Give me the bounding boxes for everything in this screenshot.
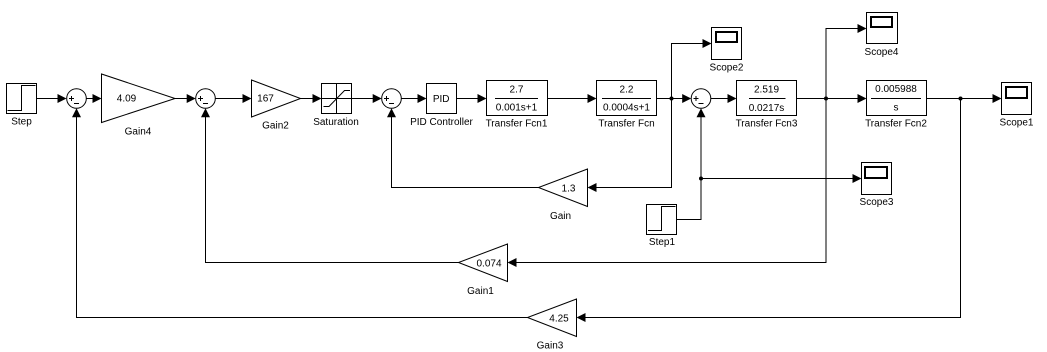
wire branch to Scope4 <box>826 24 867 99</box>
block PID Controller U1 <box>410 84 473 129</box>
svg-text:2.2: 2.2 <box>620 85 634 96</box>
wire Gain1 to Sum2 bottom <box>201 108 459 262</box>
svg-text:Gain3: Gain3 <box>537 341 564 352</box>
wire Gain3 to Sum1 bottom <box>72 108 528 317</box>
wire branch to Scope3 <box>701 174 862 183</box>
gain Gain2 <box>252 80 301 132</box>
wire branch down to Gain3 <box>577 99 961 323</box>
svg-text:Scope4: Scope4 <box>865 47 899 58</box>
wire Sum4 to TransferFcn3 <box>711 94 737 103</box>
scope Scope2 <box>710 28 744 74</box>
wire Saturation to Sum3 <box>352 94 382 103</box>
svg-text:0.001s+1: 0.001s+1 <box>496 103 538 114</box>
wire Sum3 to PID <box>401 94 426 103</box>
svg-text:PID: PID <box>433 94 450 105</box>
block Transfer Fcn1 <box>486 81 548 130</box>
block Step1 <box>647 205 677 249</box>
svg-text:Scope1: Scope1 <box>1000 118 1034 129</box>
gain Gain (1.3) <box>539 169 588 222</box>
wire branch to Scope2 <box>672 39 712 99</box>
wire TransferFcn2 to Scope1 <box>927 94 1002 103</box>
svg-text:4.09: 4.09 <box>117 94 137 105</box>
svg-text:Scope3: Scope3 <box>860 197 894 208</box>
block Transfer Fcn <box>597 81 657 130</box>
svg-text:4.25: 4.25 <box>549 314 569 325</box>
wire Gain to Sum3 bottom <box>387 108 539 187</box>
wire Gain2 to Saturation <box>301 94 322 103</box>
block Transfer Fcn2 <box>865 81 927 130</box>
svg-text:Gain1: Gain1 <box>467 286 494 297</box>
svg-text:167: 167 <box>257 94 274 105</box>
sum S3 <box>382 89 402 109</box>
svg-text:Gain: Gain <box>550 211 571 222</box>
svg-text:Scope2: Scope2 <box>710 63 744 74</box>
svg-text:0.0004s+1: 0.0004s+1 <box>603 103 650 114</box>
svg-text:Saturation: Saturation <box>313 117 359 128</box>
wire TransferFcn1 to TransferFcn <box>548 94 597 103</box>
svg-text:Step1: Step1 <box>649 237 676 248</box>
block Step <box>7 84 37 128</box>
wire branch down to Gain1 <box>508 99 827 268</box>
svg-text:2.519: 2.519 <box>754 85 779 96</box>
wire Step to Sum1 <box>37 94 67 103</box>
scope Scope4 <box>865 13 899 59</box>
wire TransferFcn3 to TransferFcn2 <box>797 94 867 103</box>
block Saturation <box>313 84 359 129</box>
wire PID to TransferFcn1 <box>457 94 487 103</box>
svg-text:0.074: 0.074 <box>476 259 501 270</box>
sum S2 <box>196 89 216 109</box>
svg-text:Gain2: Gain2 <box>262 121 289 132</box>
wire branch down to Gain <box>588 99 672 193</box>
node junction J4 <box>959 97 963 101</box>
gain Gain1 (0.074) <box>459 244 508 297</box>
svg-text:Step: Step <box>11 117 32 128</box>
svg-text:PID Controller: PID Controller <box>410 117 473 128</box>
wire Step1 to Sum4 bottom <box>677 108 706 219</box>
gain Gain4 <box>102 74 176 138</box>
sum S1 <box>67 89 87 109</box>
svg-text:2.7: 2.7 <box>510 85 524 96</box>
svg-text:Transfer Fcn3: Transfer Fcn3 <box>736 119 798 130</box>
gain Gain3 (4.25) <box>528 299 577 352</box>
svg-text:s: s <box>894 103 899 114</box>
svg-text:0.0217s: 0.0217s <box>749 103 785 114</box>
wire Sum1 to Gain4 <box>86 94 101 103</box>
svg-text:0.005988: 0.005988 <box>875 84 917 95</box>
wire Sum2 to Gain2 <box>215 94 251 103</box>
node junction J3 <box>699 177 703 181</box>
sum S4 <box>691 89 711 109</box>
svg-text:Gain4: Gain4 <box>125 127 152 138</box>
svg-text:Transfer Fcn1: Transfer Fcn1 <box>486 119 548 130</box>
node junction J1 <box>670 97 674 101</box>
wire Gain4 to Sum2 <box>175 94 196 103</box>
wire TransferFcn to Sum4 <box>657 94 692 103</box>
svg-text:1.3: 1.3 <box>562 184 576 195</box>
scope Scope1 <box>1000 83 1034 129</box>
svg-text:Transfer Fcn: Transfer Fcn <box>598 119 654 130</box>
block Transfer Fcn3 <box>736 81 798 130</box>
svg-text:Transfer Fcn2: Transfer Fcn2 <box>865 119 927 130</box>
scope Scope3 <box>860 163 894 209</box>
node junction J2 <box>824 97 828 101</box>
